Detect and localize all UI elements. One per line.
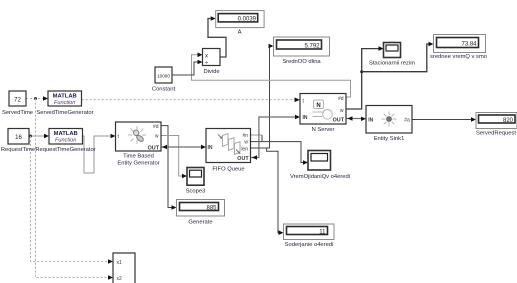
subsystem block x1 x2 — [113, 253, 135, 283]
svg-text:w: w — [155, 134, 159, 140]
display ServedRequest 820 — [476, 113, 517, 137]
svg-text:11: 11 — [319, 229, 326, 235]
svg-text:RequestTime: RequestTime — [1, 147, 35, 153]
svg-text:#n: #n — [242, 133, 248, 139]
svg-text:73.84: 73.84 — [461, 42, 477, 48]
wire N-Server w output to Stacionarnii rezim scope — [346, 46, 384, 109]
svg-text:Entity Sink1: Entity Sink1 — [374, 136, 405, 142]
svg-text:MATLAB: MATLAB — [54, 131, 78, 137]
svg-text:IN: IN — [208, 145, 213, 151]
wire RequestTime branch down to x1 input — [31, 136, 114, 264]
svg-text:ServedRequest: ServedRequest — [476, 131, 516, 137]
svg-text:ServedTimeGenerator: ServedTimeGenerator — [36, 110, 93, 116]
node junction on RequestTime wire — [29, 135, 32, 138]
svg-text:5.792: 5.792 — [304, 43, 320, 49]
wire ServedTime branch down to x2 input — [36, 99, 114, 280]
svg-text:OUT: OUT — [148, 145, 160, 151]
svg-text:N Server: N Server — [312, 127, 335, 133]
svg-text:Scope3: Scope3 — [186, 189, 206, 195]
display A 0.0039 — [216, 11, 264, 36]
constant RequestTime 16 — [1, 129, 35, 153]
svg-text:Soderjanie o4eredi: Soderjanie o4eredi — [285, 242, 334, 248]
display SrednOO dlina 5.792 — [274, 37, 330, 65]
display srednee vremQ v smo 73.84 — [430, 35, 487, 60]
wire Entity Sink1 #a to ServedRequest display — [412, 117, 476, 122]
svg-text:0.0039: 0.0039 — [238, 17, 257, 23]
block Time-Based Entity Generator — [116, 122, 162, 167]
block N-Server — [300, 94, 346, 134]
svg-text:16: 16 — [15, 135, 22, 141]
svg-text:RequestTimeGenerator: RequestTimeGenerator — [35, 147, 95, 153]
wire TBEG w output to Scope3 — [161, 136, 187, 179]
svg-text:OUT: OUT — [333, 118, 345, 124]
svg-text:FIFO Queue: FIFO Queue — [212, 167, 244, 173]
svg-text:MATLAB: MATLAB — [53, 94, 77, 100]
constant Constant 10000 — [152, 67, 176, 93]
svg-text:Function: Function — [55, 138, 76, 144]
svg-text:Generate: Generate — [188, 220, 212, 226]
wire FIFO #n jog down — [261, 135, 263, 142]
wire FIFO #n stub — [251, 134, 263, 136]
wire ServedTime to ServedTimeGenerator — [26, 96, 48, 101]
svg-text:820: 820 — [503, 118, 514, 124]
svg-text:srednee vremQ v smo: srednee vremQ v smo — [430, 54, 487, 60]
scope Scope3 — [186, 168, 206, 195]
display SoderjanieO4eredi 11 — [284, 224, 335, 248]
svg-text:x1: x1 — [117, 260, 123, 266]
divide block Divide — [203, 49, 221, 75]
svg-text:x2: x2 — [117, 276, 123, 282]
svg-text:OUT: OUT — [237, 156, 249, 162]
wire RequestTime to RequestTimeGenerator — [29, 134, 49, 139]
wire entity path TBEG OUT to FIFO Queue IN — [161, 145, 206, 149]
svg-text:885: 885 — [206, 205, 217, 211]
wire FIFO len output up to SrednOO dlina display — [251, 44, 274, 148]
svg-text:A: A — [238, 30, 242, 36]
svg-text:w: w — [244, 140, 248, 146]
svg-text:Entity Generator: Entity Generator — [117, 161, 159, 167]
block Entity Sink1 — [366, 106, 412, 143]
svg-text:len: len — [241, 146, 248, 152]
scope VremOjidaniQ v o4eredi — [290, 151, 350, 180]
svg-text:VremOjidaniQv o4eredi: VremOjidaniQv o4eredi — [290, 174, 350, 180]
svg-text:x: x — [205, 53, 208, 59]
MATLAB function RequestTimeGenerator — [35, 129, 95, 153]
wire TBEG #d output to Generate display — [161, 126, 177, 210]
wire RequestTimeGenerator to Time-Based Entity Generator t input — [82, 134, 116, 173]
svg-text:72: 72 — [14, 97, 21, 103]
wire Constant to Divide divisor input — [172, 60, 203, 75]
scope Stacionarnii rezim — [369, 43, 415, 67]
svg-text:N: N — [316, 103, 320, 109]
wire Divide output to display A — [208, 16, 226, 57]
svg-text:#d: #d — [153, 124, 159, 130]
node junction on ServedTime wire — [34, 97, 37, 100]
svg-text:#a: #a — [404, 117, 410, 123]
svg-text:w: w — [340, 108, 344, 114]
svg-text:Constant: Constant — [152, 87, 176, 93]
wire entity path N-Server OUT to Entity Sink1 IN — [346, 116, 366, 121]
wire N-Server #d output to Divide x input — [192, 53, 351, 98]
wire branch to srednee vremQ v smo display — [362, 42, 434, 72]
svg-text:IN: IN — [303, 115, 308, 121]
svg-text:Function: Function — [54, 100, 75, 106]
wire ServedTimeGenerator to N-Server t input — [82, 98, 301, 103]
MATLAB function ServedTimeGenerator — [36, 91, 93, 116]
svg-text:Stacionarnii rezim: Stacionarnii rezim — [369, 61, 415, 67]
block FIFO Queue — [206, 129, 251, 173]
wire FIFO branch down to SoderjanieO4eredi display — [267, 148, 284, 235]
svg-text:Divide: Divide — [203, 69, 219, 75]
display Generate 885 — [177, 200, 225, 226]
svg-text:SrednOO dlina: SrednOO dlina — [282, 59, 321, 65]
svg-text:IN: IN — [368, 117, 373, 123]
node junction on w wire — [360, 70, 363, 73]
wire entity path FIFO OUT to N-Server IN — [251, 115, 301, 160]
svg-text:10000: 10000 — [157, 73, 170, 78]
wire FIFO w output to VremO scope — [251, 142, 309, 165]
constant ServedTime 72 — [2, 91, 33, 116]
svg-text:#d: #d — [338, 96, 344, 102]
svg-text:Time Based: Time Based — [123, 154, 154, 160]
svg-text:ServedTime: ServedTime — [2, 110, 33, 116]
